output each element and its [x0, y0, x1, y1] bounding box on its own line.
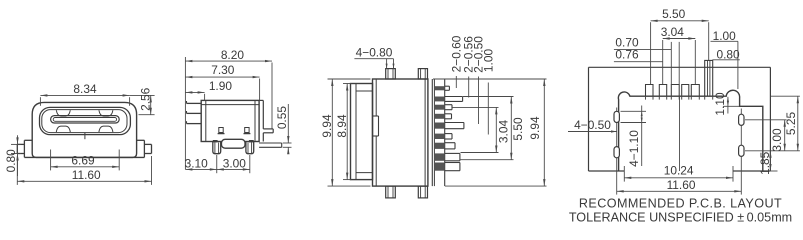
svg-text:1.90: 1.90 [209, 79, 233, 93]
svg-text:9.94: 9.94 [320, 114, 334, 138]
svg-text:9.94: 9.94 [528, 116, 542, 140]
svg-text:0.80: 0.80 [4, 149, 18, 173]
svg-text:8.94: 8.94 [335, 114, 349, 138]
svg-text:11.60: 11.60 [72, 168, 101, 182]
svg-text:8.20: 8.20 [221, 48, 245, 62]
svg-text:1.00: 1.00 [713, 29, 737, 43]
svg-text:1.10: 1.10 [713, 92, 727, 116]
svg-text:0.55: 0.55 [275, 106, 289, 130]
svg-text:3.00: 3.00 [770, 128, 784, 152]
svg-text:RECOMMENDED P.C.B. LAYOUT: RECOMMENDED P.C.B. LAYOUT [579, 197, 782, 211]
svg-text:2.56: 2.56 [138, 87, 152, 111]
svg-text:4−0.50: 4−0.50 [574, 118, 611, 132]
svg-text:4−1.10: 4−1.10 [627, 130, 641, 167]
svg-text:1.00: 1.00 [481, 49, 495, 73]
svg-text:3.04: 3.04 [661, 25, 685, 39]
svg-text:0.76: 0.76 [615, 48, 639, 62]
svg-text:5.50: 5.50 [511, 117, 525, 141]
svg-text:5.25: 5.25 [784, 112, 798, 136]
svg-text:10.24: 10.24 [664, 163, 694, 177]
svg-text:4−0.80: 4−0.80 [356, 45, 393, 59]
svg-text:5.50: 5.50 [662, 7, 686, 21]
svg-text:6.69: 6.69 [71, 154, 95, 168]
svg-text:8.34: 8.34 [73, 82, 97, 96]
svg-text:TOLERANCE UNSPECIFIED ± 0.05mm: TOLERANCE UNSPECIFIED ± 0.05mm [569, 211, 792, 225]
svg-text:11.60: 11.60 [667, 178, 696, 192]
svg-text:7.30: 7.30 [211, 63, 235, 77]
svg-text:3.10: 3.10 [185, 156, 209, 170]
svg-text:3.04: 3.04 [497, 120, 511, 144]
svg-text:3.00: 3.00 [223, 156, 247, 170]
svg-text:0.80: 0.80 [717, 47, 741, 61]
svg-text:1.85: 1.85 [758, 151, 772, 175]
